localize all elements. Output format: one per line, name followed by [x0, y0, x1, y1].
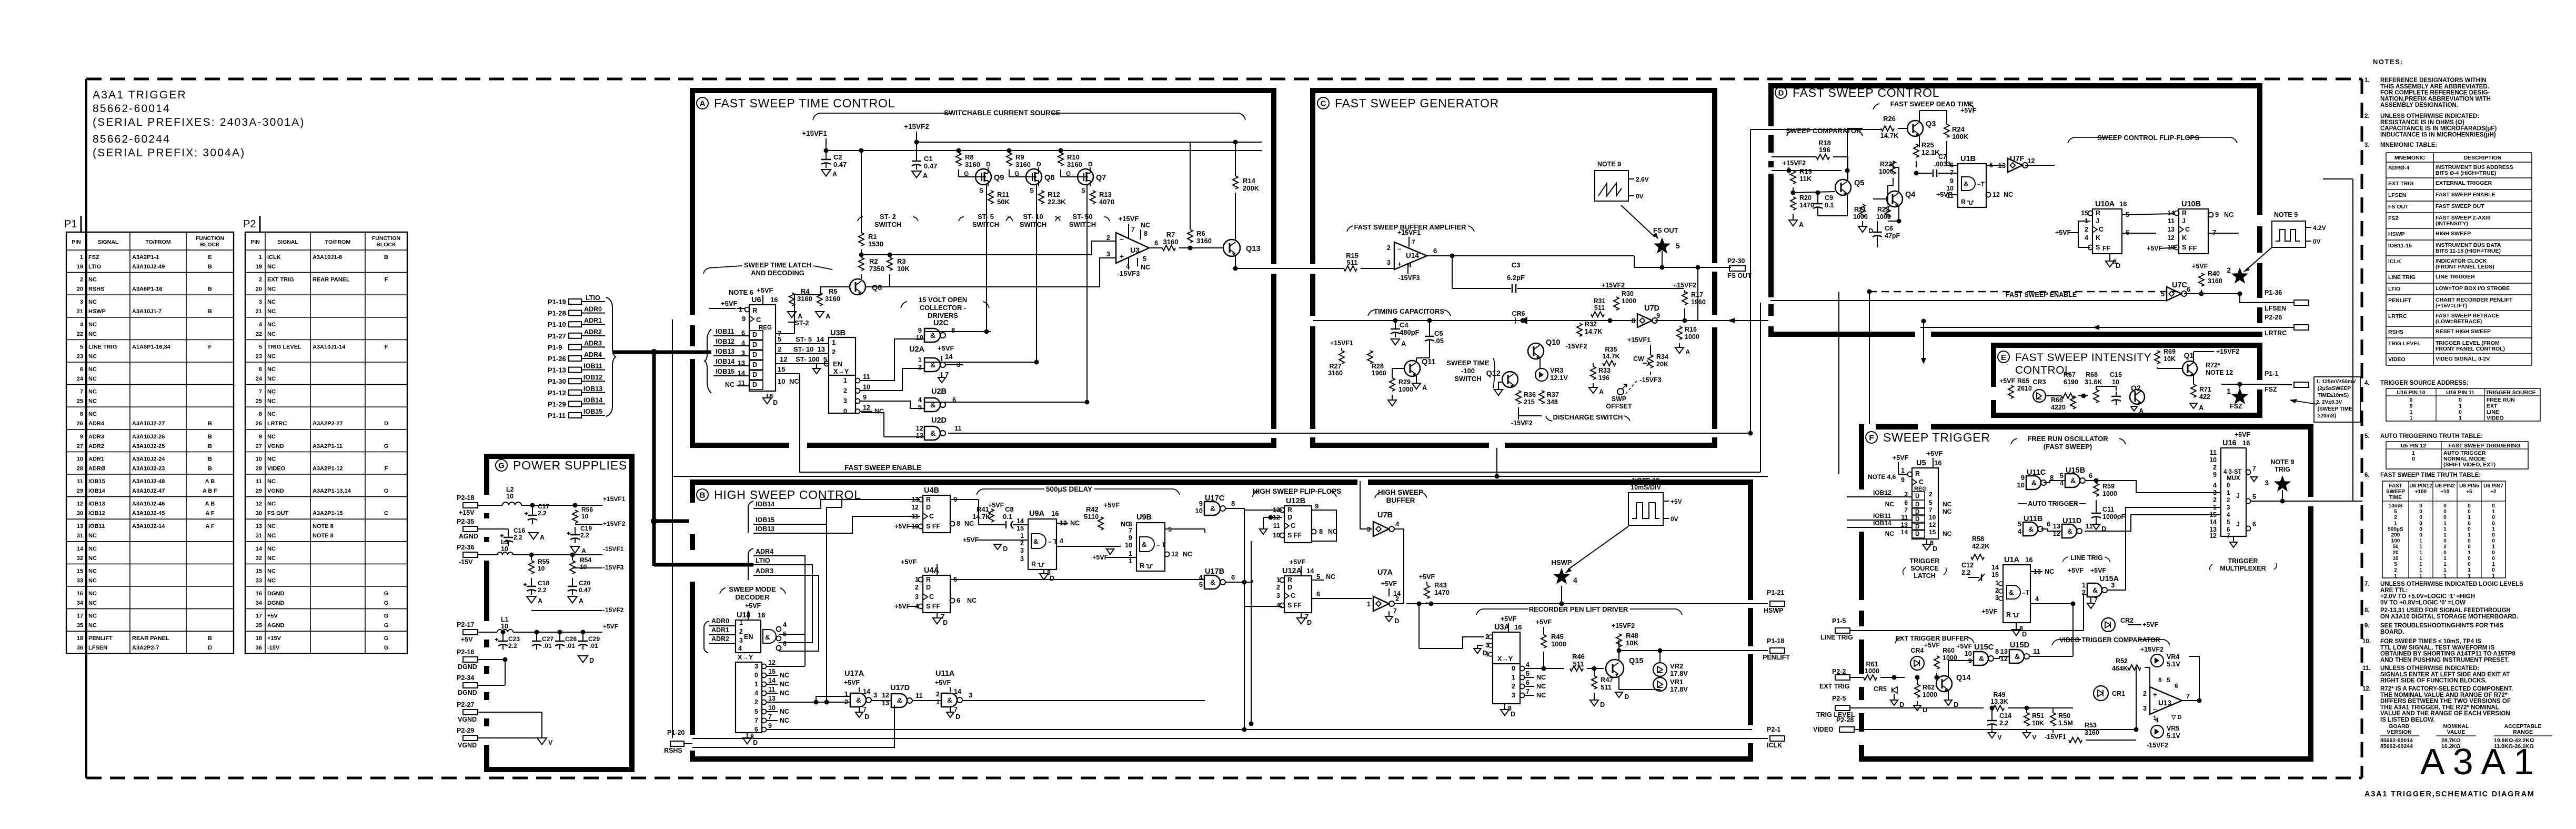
svg-text:FSZ: FSZ	[88, 254, 99, 261]
svg-text:0.47: 0.47	[833, 161, 847, 168]
resistor R9	[1007, 148, 1031, 177]
svg-text:VR3: VR3	[1550, 366, 1563, 374]
svg-text:R59: R59	[2102, 483, 2115, 490]
svg-text:NOTE 10: NOTE 10	[1632, 477, 1659, 484]
svg-text:FAST SWEEP TIME TRUTH TABLE:: FAST SWEEP TIME TRUTH TABLE:	[2380, 472, 2481, 478]
svg-text:U5: U5	[1916, 459, 1926, 467]
svg-text:D: D	[773, 399, 778, 406]
svg-text:0: 0	[2419, 509, 2422, 515]
svg-text:9: 9	[768, 722, 772, 730]
svg-text:12: 12	[1171, 551, 1179, 558]
resistor R49	[1990, 691, 2073, 711]
svg-text:3: 3	[1387, 259, 1391, 266]
svg-text:NC: NC	[267, 398, 276, 405]
svg-text:4: 4	[1060, 537, 1063, 545]
svg-text:3160: 3160	[825, 295, 840, 303]
svg-text:IOB15: IOB15	[716, 368, 734, 375]
svg-text:C27: C27	[542, 635, 554, 643]
svg-text:6.: 6.	[2364, 472, 2370, 478]
wire fast sweep enable	[800, 303, 1760, 472]
resistor R48	[1612, 622, 1639, 647]
transistor Q5	[1793, 171, 1864, 205]
svg-text:DISCHARGE SWITCH: DISCHARGE SWITCH	[1553, 413, 1623, 421]
svg-text:&: &	[2028, 525, 2034, 533]
svg-text:U6 PIN2: U6 PIN2	[2435, 483, 2455, 489]
svg-text:A3A10J1-7: A3A10J1-7	[132, 308, 162, 315]
svg-text:2: 2	[778, 345, 781, 353]
svg-text:(FAST SWEEP): (FAST SWEEP)	[2044, 443, 2092, 451]
svg-text:13: 13	[2167, 226, 2175, 233]
flip-flop U4B	[894, 486, 991, 533]
svg-text:R34: R34	[1656, 353, 1668, 361]
svg-text:R: R	[2182, 209, 2187, 217]
svg-text:2: 2	[2227, 497, 2230, 504]
svg-text:3160: 3160	[2085, 729, 2099, 736]
svg-text:SIGNAL: SIGNAL	[277, 239, 298, 245]
svg-text:J: J	[2182, 217, 2186, 225]
svg-text:Q1: Q1	[2184, 351, 2194, 359]
resistor R47	[1590, 666, 1613, 709]
svg-text:R62: R62	[1923, 684, 1935, 691]
svg-text:C28: C28	[565, 635, 577, 643]
svg-text:.01: .01	[589, 642, 598, 650]
svg-text:P2-16: P2-16	[457, 648, 474, 656]
svg-text:ADR1: ADR1	[711, 626, 729, 634]
svg-text:26: 26	[77, 421, 83, 427]
svg-text:R25: R25	[1921, 141, 1934, 149]
svg-text:+15V: +15V	[459, 509, 475, 516]
svg-text:4: 4	[2018, 527, 2022, 535]
svg-text:Q11: Q11	[1422, 358, 1436, 366]
transistor Q7 (FET)	[1061, 161, 1106, 194]
svg-text:NC: NC	[267, 376, 276, 382]
svg-text:6: 6	[2227, 527, 2230, 533]
svg-text:1000: 1000	[1865, 667, 1879, 675]
svg-text:EXT TRIG: EXT TRIG	[267, 277, 294, 283]
svg-text:C16: C16	[514, 527, 525, 534]
svg-text:G: G	[1066, 170, 1071, 177]
svg-text:3: 3	[2227, 505, 2230, 511]
svg-text:&: &	[765, 633, 770, 641]
svg-text:&: &	[2092, 586, 2098, 594]
svg-text:FAST SWEEP GENERATOR: FAST SWEEP GENERATOR	[1335, 96, 1499, 110]
trigger source latch label	[1903, 557, 1947, 580]
svg-text:25: 25	[77, 398, 83, 405]
switchable current source label	[813, 109, 1245, 120]
svg-text:14: 14	[1991, 564, 1999, 571]
svg-text:▽ D: ▽ D	[2171, 714, 2182, 721]
svg-text:0: 0	[2443, 503, 2447, 509]
svg-text:9: 9	[259, 434, 262, 440]
gate U11B	[2018, 515, 2050, 536]
svg-text:50: 50	[2392, 544, 2399, 550]
svg-text:.01: .01	[566, 642, 575, 650]
IC U6 sweep time latch	[705, 296, 829, 406]
svg-text:REAR PANEL: REAR PANEL	[313, 277, 350, 283]
block G title	[496, 458, 627, 472]
svg-text:E: E	[2001, 353, 2006, 362]
svg-text:B: B	[208, 465, 212, 472]
svg-text:P2-35: P2-35	[457, 518, 474, 525]
net +15VF2 D	[1772, 159, 1842, 173]
svg-text:B: B	[208, 635, 212, 642]
svg-text:G: G	[384, 645, 389, 651]
ground V	[537, 738, 553, 746]
svg-text:Q2: Q2	[2131, 384, 2141, 392]
svg-text:Q4: Q4	[1905, 191, 1915, 199]
svg-text:IOB13: IOB13	[583, 385, 602, 393]
svg-text:8: 8	[951, 326, 955, 334]
capacitor C28	[555, 630, 577, 650]
svg-text:511: 511	[1594, 304, 1605, 312]
svg-text:1: 1	[936, 698, 940, 706]
svg-text:2: 2	[259, 277, 262, 283]
svg-text:NC: NC	[964, 520, 974, 527]
svg-text:NC: NC	[267, 366, 276, 373]
svg-text:ADR4: ADR4	[756, 548, 773, 555]
svg-text:PIN: PIN	[250, 239, 260, 245]
svg-text:3: 3	[2265, 478, 2269, 487]
svg-text:6: 6	[1316, 590, 1320, 598]
svg-text:+5VF: +5VF	[2235, 431, 2251, 438]
resistor R6	[1188, 142, 1212, 251]
svg-text:AGND: AGND	[459, 533, 478, 540]
svg-text:+15VF2: +15VF2	[2216, 348, 2239, 355]
resistor R1	[859, 148, 883, 257]
svg-text:5: 5	[918, 403, 922, 411]
svg-text:S FF: S FF	[926, 603, 940, 610]
svg-text:1: 1	[2443, 556, 2447, 562]
svg-text:A: A	[1401, 340, 1406, 347]
svg-text:U4B: U4B	[924, 486, 939, 495]
svg-text:14.7K: 14.7K	[1880, 132, 1899, 139]
capacitor C8	[991, 505, 1028, 528]
wire RSHS entry	[767, 556, 805, 666]
free run oscillator label	[2011, 435, 2126, 451]
note 9 sawtooth waveform	[1595, 161, 1649, 201]
gate U2B	[918, 387, 956, 412]
block A title	[697, 96, 895, 110]
resistor R4	[788, 287, 812, 320]
svg-text:NC: NC	[267, 353, 276, 359]
svg-text:U7C: U7C	[2172, 281, 2188, 289]
function block E border	[1991, 343, 2262, 418]
svg-text:11: 11	[256, 478, 262, 485]
svg-text:15 VOLT OPEN: 15 VOLT OPEN	[919, 296, 967, 304]
svg-text:C: C	[756, 316, 761, 324]
svg-text:U16 PIN 10: U16 PIN 10	[2397, 389, 2425, 396]
svg-text:200K: 200K	[1243, 184, 1260, 192]
svg-text:1: 1	[739, 305, 742, 313]
svg-text:5: 5	[1526, 670, 1529, 677]
svg-text:B: B	[208, 434, 212, 440]
svg-text:511: 511	[1347, 258, 1358, 266]
svg-text:A3A2P1-12: A3A2P1-12	[313, 465, 343, 472]
svg-text:.05: .05	[1434, 337, 1444, 345]
svg-text:12: 12	[1929, 521, 1936, 528]
svg-text:NC: NC	[88, 353, 97, 359]
resistor R54	[570, 553, 591, 574]
svg-text:0: 0	[2468, 503, 2471, 509]
svg-text:-15VF2: -15VF2	[2147, 742, 2168, 749]
gate U11C	[2017, 468, 2054, 490]
net +15VF2	[575, 520, 626, 527]
svg-text:TO/FROM: TO/FROM	[325, 239, 350, 245]
resistor R20 capacitor C9	[1789, 191, 1834, 229]
svg-text:POWER SUPPLIES: POWER SUPPLIES	[513, 458, 627, 472]
resistor R56	[572, 503, 593, 524]
resistor R2	[859, 257, 884, 279]
svg-text:3: 3	[1020, 555, 1024, 563]
transistor Q1	[2182, 351, 2197, 384]
wires E internals	[2046, 368, 2183, 399]
resistor R55	[529, 553, 549, 574]
svg-text:P1-18: P1-18	[1767, 637, 1784, 645]
svg-text:6190: 6190	[2064, 378, 2078, 386]
svg-text:NC: NC	[1141, 222, 1150, 229]
svg-text:50K: 50K	[997, 198, 1010, 206]
sheet subtitle	[2364, 790, 2535, 798]
svg-text:FSZ: FSZ	[2388, 215, 2399, 222]
svg-text:PIN: PIN	[72, 239, 81, 245]
svg-text:0: 0	[2419, 521, 2422, 526]
IC U3B decoder	[813, 329, 884, 415]
svg-text:VALUE: VALUE	[2447, 729, 2466, 735]
diode CR1	[2094, 686, 2125, 701]
svg-text:FAST SWEEP INTENSITY: FAST SWEEP INTENSITY	[2015, 352, 2151, 364]
svg-text:Q9: Q9	[994, 174, 1004, 182]
svg-text:5.: 5.	[2364, 433, 2370, 440]
svg-text:R31: R31	[1594, 297, 1606, 305]
resistor R7	[1149, 231, 1223, 251]
wire op-amp U14 output	[1427, 251, 1731, 270]
svg-text:&: &	[2070, 476, 2076, 485]
svg-text:A: A	[2199, 404, 2203, 412]
svg-text:15: 15	[778, 365, 785, 373]
capacitor C12	[1961, 562, 1985, 581]
svg-text:7: 7	[2212, 228, 2216, 236]
resistor R50	[2045, 708, 2073, 741]
svg-text:12: 12	[256, 501, 262, 507]
svg-text:0V: 0V	[1636, 193, 1644, 200]
svg-text:1: 1	[2394, 573, 2397, 579]
resistor R10	[1058, 148, 1082, 177]
svg-text:4220: 4220	[2051, 404, 2066, 411]
svg-text:NC: NC	[2004, 191, 2013, 198]
svg-text:20: 20	[2392, 550, 2399, 556]
wires C internals	[1361, 242, 1610, 256]
svg-text:7: 7	[1131, 226, 1135, 233]
svg-text:+15VF2: +15VF2	[1783, 159, 1806, 167]
svg-text:X→Y: X→Y	[1497, 655, 1513, 663]
svg-text:NC: NC	[88, 591, 97, 597]
svg-text:EN: EN	[833, 360, 842, 368]
svg-text:CR2: CR2	[2120, 617, 2134, 624]
high sweep flip-flops label	[1252, 487, 1341, 497]
ST-5 switch label	[959, 213, 1013, 228]
svg-text:C8: C8	[1005, 505, 1014, 513]
resistor R45	[1536, 618, 1566, 671]
svg-text:3: 3	[80, 299, 83, 305]
svg-text:NC: NC	[1885, 501, 1895, 508]
svg-text:U15D: U15D	[2010, 641, 2029, 650]
svg-text:MNEMONIC TABLE:: MNEMONIC TABLE:	[2380, 142, 2437, 148]
svg-text:-15VF3: -15VF3	[1640, 376, 1662, 384]
svg-text:2.6V: 2.6V	[1636, 176, 1649, 183]
svg-text:NC: NC	[88, 366, 97, 373]
svg-text:1000: 1000	[1398, 386, 1413, 393]
svg-text:C11: C11	[2102, 506, 2114, 513]
capacitor C7	[1916, 153, 1958, 177]
svg-text:+15VF2: +15VF2	[603, 520, 626, 527]
svg-text:D: D	[1915, 531, 1919, 537]
svg-text:-15VF2: -15VF2	[1566, 343, 1587, 350]
svg-text:9: 9	[918, 326, 922, 334]
svg-text:7: 7	[768, 713, 772, 721]
svg-text:1: 1	[2410, 409, 2413, 415]
svg-text:R27: R27	[1330, 363, 1342, 370]
resistor R21	[1853, 204, 1873, 235]
svg-text:0: 0	[2492, 567, 2495, 573]
svg-text:A1A8P1-16,34: A1A8P1-16,34	[132, 344, 171, 350]
svg-text:V: V	[548, 739, 553, 746]
svg-text:NC: NC	[780, 717, 789, 724]
svg-text:11: 11	[2086, 522, 2093, 530]
svg-text:3: 3	[915, 593, 919, 601]
svg-text:C29: C29	[588, 635, 600, 643]
flip-flop U10A	[2055, 200, 2175, 269]
bus entry ADR4 LTIO ADR3	[748, 548, 789, 580]
svg-text:C: C	[929, 593, 934, 601]
svg-text:2: 2	[832, 348, 836, 356]
svg-text:1: 1	[2443, 573, 2447, 579]
svg-text:C23: C23	[508, 635, 520, 643]
svg-text:0: 0	[2492, 556, 2495, 562]
svg-text:5.1V: 5.1V	[2167, 661, 2180, 668]
svg-text:TRIGGER SOURCE ADDRESS:: TRIGGER SOURCE ADDRESS:	[2380, 380, 2469, 386]
resistor R69	[2155, 348, 2176, 368]
svg-text:3: 3	[739, 637, 743, 644]
connector table P2	[243, 216, 407, 654]
note 10	[2362, 638, 2515, 663]
svg-text:6.2pF: 6.2pF	[1507, 274, 1525, 282]
svg-text:P1-30: P1-30	[548, 377, 566, 385]
fast sweep enable label D	[1770, 291, 2166, 301]
svg-text:+5VF: +5VF	[2192, 263, 2208, 270]
svg-text:2.2: 2.2	[514, 534, 522, 541]
svg-text:+5VF: +5VF	[1893, 454, 1909, 462]
function block D border	[1768, 83, 2262, 337]
svg-text:C20: C20	[579, 580, 590, 587]
svg-text:NC: NC	[267, 331, 276, 337]
svg-text:HSWP: HSWP	[2388, 231, 2405, 237]
svg-text:P2-18: P2-18	[457, 494, 474, 502]
svg-text:U13: U13	[2158, 699, 2171, 707]
svg-text:DRIVERS: DRIVERS	[928, 312, 958, 319]
svg-text:11: 11	[954, 424, 962, 432]
svg-text:6: 6	[957, 596, 960, 604]
connector P1-18 PENLIFT	[1763, 637, 1790, 661]
svg-text:SOURCE: SOURCE	[1910, 565, 1938, 572]
svg-text:VR4: VR4	[2167, 653, 2179, 661]
svg-text:9: 9	[1315, 502, 1319, 510]
svg-text:R66: R66	[2051, 396, 2063, 404]
svg-text:IOB11: IOB11	[88, 523, 105, 530]
svg-text:P1-27: P1-27	[548, 332, 566, 340]
note 3 mnemonic table	[2364, 142, 2532, 365]
svg-text:1: 1	[2419, 538, 2422, 544]
connector P1-1 FSZ	[2262, 370, 2309, 393]
wire ST-2 to R2/Q6	[794, 287, 850, 322]
svg-text:R10: R10	[1067, 153, 1080, 161]
transistor Q9 (FET)	[959, 161, 1004, 194]
svg-text:R53: R53	[2085, 722, 2097, 729]
svg-text:1: 1	[2419, 550, 2422, 556]
svg-text:D: D	[752, 361, 757, 368]
inductor L2	[502, 486, 602, 505]
svg-text:A: A	[1799, 221, 1804, 228]
svg-text:5: 5	[2252, 493, 2256, 501]
svg-text:P2-26: P2-26	[2265, 314, 2282, 321]
svg-text:RSHS: RSHS	[2388, 329, 2403, 335]
svg-text:13: 13	[256, 523, 262, 530]
svg-text:A: A	[581, 547, 586, 555]
svg-text:-15V: -15V	[459, 558, 473, 566]
svg-text:LTIO: LTIO	[586, 294, 600, 302]
svg-text:G: G	[384, 443, 389, 450]
svg-text:1: 1	[1129, 557, 1132, 565]
svg-text:VIDEO: VIDEO	[267, 465, 286, 472]
svg-text:32: 32	[77, 555, 83, 562]
svg-text:1: 1	[2468, 533, 2471, 538]
svg-text:SWEEP TRIGGER: SWEEP TRIGGER	[1883, 431, 1990, 444]
svg-text:6: 6	[783, 640, 787, 647]
svg-text:R: R	[752, 306, 758, 314]
IC U5 register	[1868, 450, 1952, 553]
svg-text:U6 PIN12: U6 PIN12	[2409, 483, 2432, 489]
bus wire from P1 stack to blocks A and B	[612, 349, 753, 566]
svg-text:6: 6	[1154, 239, 1158, 247]
svg-text:1: 1	[80, 254, 83, 261]
svg-text:D: D	[752, 351, 757, 358]
buffer U7A	[1367, 568, 1401, 625]
sheet title block	[93, 89, 305, 159]
svg-text:NC: NC	[789, 377, 799, 385]
svg-text:NC: NC	[267, 555, 276, 562]
svg-text:7: 7	[1929, 506, 1933, 514]
svg-text:7: 7	[1412, 238, 1415, 246]
svg-text:+5VF: +5VF	[1290, 558, 1306, 566]
svg-text:25: 25	[256, 398, 262, 405]
svg-text:Q13: Q13	[1246, 245, 1260, 253]
svg-text:U11A: U11A	[935, 670, 955, 678]
svg-text:5: 5	[80, 344, 83, 350]
svg-text:1: 1	[2410, 415, 2413, 422]
wire fs to P2-30	[1697, 267, 1698, 321]
svg-text:R32: R32	[1585, 321, 1597, 328]
svg-text:R72*: R72*	[2206, 362, 2220, 369]
svg-text:G: G	[384, 635, 389, 642]
svg-text:IOB13: IOB13	[716, 348, 734, 355]
svg-text:7: 7	[2186, 692, 2190, 700]
svg-text:R51: R51	[2032, 712, 2044, 720]
svg-text:-100: -100	[1461, 367, 1475, 375]
svg-text:R: R	[1140, 562, 1144, 570]
svg-text:16: 16	[1051, 510, 1059, 517]
wires D internals	[1818, 128, 1999, 247]
svg-text:2: 2	[843, 387, 847, 395]
svg-text:R17: R17	[1691, 291, 1703, 298]
